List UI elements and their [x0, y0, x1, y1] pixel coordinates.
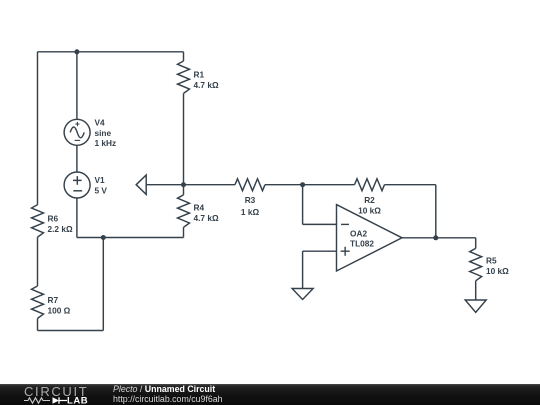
svg-text:V4: V4	[95, 117, 106, 127]
wire arrow to R3	[146, 184, 235, 186]
op-amp minus sign	[341, 223, 349, 225]
wire R4 top lead	[183, 185, 185, 195]
svg-text:TL082: TL082	[350, 239, 374, 249]
resistor R2	[355, 179, 385, 191]
ground under R5	[465, 300, 486, 312]
wire V4 top lead	[76, 52, 78, 120]
svg-text:R5: R5	[486, 256, 497, 266]
wire node to R2	[303, 184, 355, 186]
junction node bottom	[101, 235, 106, 240]
junction node main row left	[181, 182, 186, 187]
V1 minus sign	[73, 190, 82, 192]
wire R2 right lead	[385, 184, 436, 186]
svg-text:R2: R2	[364, 195, 375, 205]
wire bottom riser	[102, 238, 104, 331]
resistor R4	[178, 195, 190, 227]
wire bottom horizontal	[38, 330, 104, 332]
resistor R3	[235, 179, 265, 191]
wire R4 bottom lead	[183, 227, 185, 237]
wire op-amp output	[402, 237, 476, 239]
svg-text:4.7 kΩ: 4.7 kΩ	[194, 80, 219, 90]
svg-text:LAB: LAB	[67, 396, 88, 405]
footer bar	[0, 384, 540, 405]
svg-text:V1: V1	[95, 175, 106, 185]
V4 plus sign	[75, 122, 79, 126]
wire R2 down to output	[435, 185, 437, 238]
svg-text:R1: R1	[194, 70, 205, 80]
svg-text:4.7 kΩ: 4.7 kΩ	[194, 213, 219, 223]
wire V1 bottom lead	[76, 198, 78, 238]
svg-text:sine: sine	[95, 128, 112, 138]
junction node inverting tap	[300, 182, 305, 187]
op-amp plus sign	[341, 247, 350, 256]
svg-text:10 kΩ: 10 kΩ	[358, 206, 381, 216]
wire R1 top lead	[183, 52, 185, 61]
wire R5 bottom lead	[475, 281, 477, 300]
junction node top	[74, 49, 79, 54]
svg-text:10 kΩ: 10 kΩ	[486, 266, 509, 276]
wire middle bottom horizontal	[77, 237, 184, 239]
wire V4 to V1	[76, 145, 78, 172]
op-amp OA2 triangle	[337, 205, 403, 271]
wire R1 bottom lead	[183, 93, 185, 184]
resistor R1	[178, 61, 190, 93]
wire R3 to node	[265, 184, 303, 186]
svg-text:R6: R6	[48, 214, 59, 224]
svg-text:2.2 kΩ: 2.2 kΩ	[48, 224, 73, 234]
junction node output	[433, 235, 438, 240]
voltage source V1 circle	[64, 172, 90, 198]
V1 plus sign	[73, 176, 82, 185]
svg-text:1 kΩ: 1 kΩ	[241, 207, 260, 217]
V4 sine symbol	[70, 127, 84, 138]
voltage source V4 circle	[64, 119, 90, 145]
ground under noninverting input	[292, 289, 313, 300]
logo diode	[53, 397, 60, 404]
svg-text:1 kHz: 1 kHz	[95, 138, 117, 148]
svg-text:5 V: 5 V	[95, 186, 108, 196]
wire inverting input horizontal	[303, 223, 337, 225]
svg-text:OA2: OA2	[350, 228, 367, 238]
svg-text:R3: R3	[245, 195, 256, 205]
wire left vertical	[37, 52, 39, 205]
footer labels	[113, 385, 223, 404]
wire noninverting input horizontal	[303, 250, 337, 252]
svg-text:100 Ω: 100 Ω	[48, 305, 71, 315]
svg-text:R7: R7	[48, 295, 59, 305]
wire R7 bottom lead	[37, 318, 39, 330]
logo resistor zigzag	[24, 398, 50, 403]
V4 minus sign	[75, 139, 81, 141]
wire R6 to R7	[37, 237, 39, 286]
wire top horizontal	[38, 51, 184, 53]
net flag arrow	[136, 175, 146, 194]
resistor R5	[470, 248, 482, 280]
svg-text:R4: R4	[194, 203, 205, 213]
wire R5 top lead	[475, 238, 477, 249]
wire inverting input vertical	[302, 185, 304, 225]
resistor R7	[32, 286, 44, 318]
wire noninverting to ground	[302, 251, 304, 288]
resistor R6	[32, 205, 44, 237]
